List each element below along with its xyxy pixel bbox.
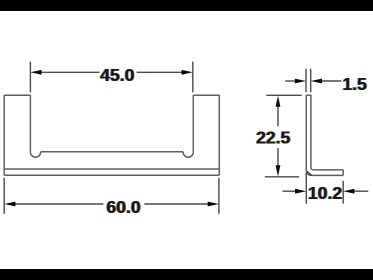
side view vertical leg left edge [305,95,307,171]
side view bend tangent line [307,171,312,175]
45.0 left arrowhead [30,70,41,75]
svg-text:22.5: 22.5 [256,127,290,147]
svg-text:45.0: 45.0 [100,65,134,85]
60.0 dimension line right segment [144,203,208,205]
1.5 left arrowhead [295,79,306,84]
side view horizontal leg bottom edge [311,174,343,176]
front view outer right edge [218,95,220,175]
22.5 top arrowhead [276,96,281,107]
10.2 left arrowhead [295,189,306,194]
45.0 left extension line [29,62,31,93]
bottom letterbox bar [0,269,373,280]
side view vertical leg right edge [310,95,312,168]
side view horizontal leg top edge [313,169,343,171]
1.5 right extension line [310,69,312,92]
10.2 right leader line [354,190,369,192]
22.5 dimension line lower segment [277,148,279,167]
45.0 dimension text [99,65,135,85]
45.0 right extension line [192,62,194,93]
side view vertical leg top edge [306,94,311,96]
60.0 left arrowhead [4,202,15,207]
front view inner bottom edge [41,151,184,153]
side view inner bend radius [311,168,313,170]
front view top-left flange edge [4,94,30,96]
front view outer left edge [3,95,5,175]
1.5 left extension line [305,69,307,92]
front view right corner relief fillet [183,152,193,158]
45.0 right arrowhead [182,70,193,75]
10.2 left extension line [305,173,307,204]
svg-text:60.0: 60.0 [106,197,140,217]
60.0 dimension text [106,197,142,217]
side view outer bend radius [306,171,311,176]
1.5 right arrowhead [311,79,322,84]
1.5 left leader line [285,80,295,82]
front view left wall inner edge [29,95,31,152]
60.0 left extension line [3,178,5,214]
10.2 right arrowhead [343,189,354,194]
22.5 bottom extension line [265,176,299,178]
10.2 left leader line [282,190,295,192]
60.0 right arrowhead [208,202,219,207]
22.5 dimension text [255,127,291,147]
10.2 right extension line [342,181,344,204]
svg-text:1.5: 1.5 [342,74,367,94]
10.2 dimension text [307,183,343,203]
22.5 top extension line [266,94,301,96]
top letterbox bar [0,0,373,11]
svg-text:10.2: 10.2 [308,183,342,203]
45.0 dimension line left segment [41,71,100,73]
60.0 dimension line left segment [15,203,104,205]
side view horizontal leg end edge [342,170,344,176]
front view base top edge [4,168,219,170]
1.5 right leader line [321,80,341,82]
22.5 dimension line upper segment [277,106,279,126]
front view right wall inner edge [192,95,194,152]
45.0 dimension line right segment [137,71,183,73]
22.5 bottom arrowhead [276,165,281,176]
60.0 right extension line [218,178,220,214]
1.5 dimension text [342,74,368,94]
front view top-right flange edge [193,94,219,96]
front view left corner relief fillet [30,152,40,157]
front view bottom edge [4,174,219,176]
